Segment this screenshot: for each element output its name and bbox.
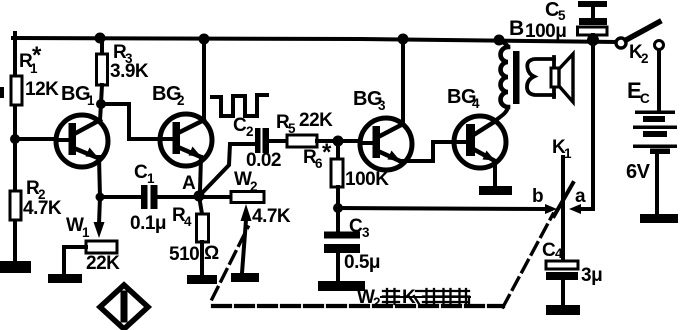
node rail C5 — [587, 34, 599, 46]
svg-text:4: 4 — [555, 246, 563, 261]
wire BG1 collector to BG2 base — [101, 104, 160, 139]
node rail R3 — [95, 33, 106, 44]
svg-text:0.1μ: 0.1μ — [130, 213, 166, 234]
svg-text:3.9K: 3.9K — [110, 61, 149, 82]
transistor BG1 — [56, 83, 108, 167]
resistor R3 — [97, 38, 149, 104]
resistor R1 — [11, 42, 59, 105]
wire node to K1 contact b — [338, 204, 557, 214]
wire top supply rail — [13, 38, 616, 42]
svg-text:1: 1 — [87, 93, 95, 108]
wire BG1 base — [15, 137, 55, 141]
svg-text:1: 1 — [82, 225, 90, 240]
svg-text:BG: BG — [61, 83, 90, 105]
svg-text:100μ: 100μ — [525, 21, 566, 42]
transistor BG2 — [152, 83, 212, 166]
svg-text:1: 1 — [564, 146, 572, 161]
resistor R4 — [169, 202, 219, 275]
svg-text:C: C — [640, 91, 650, 106]
svg-text:4: 4 — [184, 214, 192, 229]
wire node A to C2 — [203, 144, 255, 192]
dashed link note to K1 — [503, 214, 553, 307]
wire BG2 emitter — [200, 157, 201, 191]
dashed link W2 to note — [212, 227, 248, 299]
potentiometer W2 — [199, 169, 291, 273]
ground R2 — [0, 261, 31, 273]
ground R4 — [187, 275, 217, 284]
svg-text:A: A — [182, 173, 196, 194]
svg-text:4: 4 — [472, 96, 480, 111]
node R6 C3 — [333, 203, 343, 213]
svg-text:3μ: 3μ — [581, 265, 602, 286]
dashed link note line — [213, 304, 503, 308]
svg-text:Ω: Ω — [204, 243, 219, 264]
ground BG4 — [479, 186, 512, 195]
switch K1 — [532, 137, 586, 261]
transformer B primary coil — [496, 17, 525, 121]
capacitor C2 — [233, 115, 287, 171]
svg-text:22K: 22K — [299, 110, 333, 131]
resistor R5 — [276, 110, 338, 147]
ground C4 — [546, 305, 580, 315]
node rail BG2 — [199, 34, 210, 45]
wire K2 to battery — [657, 50, 661, 111]
svg-text:0.5μ: 0.5μ — [344, 252, 380, 273]
svg-text:5: 5 — [288, 121, 296, 136]
capacitor C4 — [542, 240, 602, 305]
wire rail to K1 contact a — [569, 40, 593, 214]
svg-text:2: 2 — [177, 93, 185, 108]
wire BG3 collector — [401, 39, 405, 124]
node rail BG3 — [398, 34, 409, 45]
transistor BG3 — [353, 88, 412, 170]
node R5 R6 BG3 base — [333, 136, 361, 147]
svg-text:*: * — [322, 139, 332, 166]
ground W2 — [231, 273, 259, 282]
resistor R6 — [303, 139, 389, 203]
node base BG1 — [10, 134, 20, 144]
svg-text:C: C — [134, 162, 148, 183]
capacitor C1 — [100, 162, 197, 234]
svg-text:C: C — [545, 0, 559, 21]
svg-text:2: 2 — [250, 179, 258, 194]
battery Ec — [626, 78, 677, 214]
svg-text:12K: 12K — [25, 79, 59, 100]
svg-text:b: b — [532, 186, 543, 207]
speaker — [527, 54, 573, 102]
svg-text:3: 3 — [378, 98, 386, 113]
svg-text:4.7K: 4.7K — [23, 198, 62, 219]
figure marker diamond I — [100, 285, 148, 329]
capacitor C3 — [324, 208, 380, 281]
wire BG3 emitter to BG4 base — [400, 142, 454, 161]
node rail transformer — [494, 35, 505, 46]
wire BG2 collector — [202, 39, 206, 120]
svg-text:C: C — [233, 115, 247, 136]
svg-text:6V: 6V — [626, 161, 651, 183]
transformer core — [513, 51, 520, 104]
transistor BG4 — [447, 86, 506, 168]
svg-text:3: 3 — [362, 225, 370, 240]
battery bottom terminal — [640, 214, 678, 223]
svg-text:510: 510 — [169, 244, 199, 265]
wire BG4 emitter — [493, 161, 497, 186]
waveform icon pulses — [212, 95, 267, 116]
svg-text:1: 1 — [147, 171, 155, 186]
svg-text:a: a — [575, 186, 586, 207]
potentiometer W1 — [64, 197, 120, 274]
wire BG1 emitter — [99, 157, 100, 197]
svg-text:2: 2 — [641, 51, 649, 66]
svg-text:C: C — [349, 216, 363, 237]
wire BG1 collector — [100, 104, 101, 120]
svg-text:2: 2 — [246, 124, 254, 139]
switch K2 — [616, 22, 664, 66]
node BG1 emitter — [96, 193, 105, 202]
ground C3 — [318, 281, 365, 291]
svg-text:2: 2 — [373, 295, 381, 310]
ground W1 — [48, 274, 82, 283]
resistor R2 — [10, 178, 62, 220]
svg-text:*: * — [32, 42, 42, 69]
capacitor C5 — [525, 0, 607, 42]
wire left trunk — [0, 33, 15, 262]
svg-text:0.02: 0.02 — [246, 150, 281, 171]
svg-text:B: B — [509, 17, 524, 40]
svg-text:22K: 22K — [86, 253, 120, 274]
svg-text:4.7K: 4.7K — [252, 206, 291, 227]
node A — [182, 173, 205, 202]
svg-text:C: C — [542, 240, 556, 261]
note text W2 K1 ganged — [357, 287, 470, 310]
node BG1 collector — [96, 99, 106, 109]
